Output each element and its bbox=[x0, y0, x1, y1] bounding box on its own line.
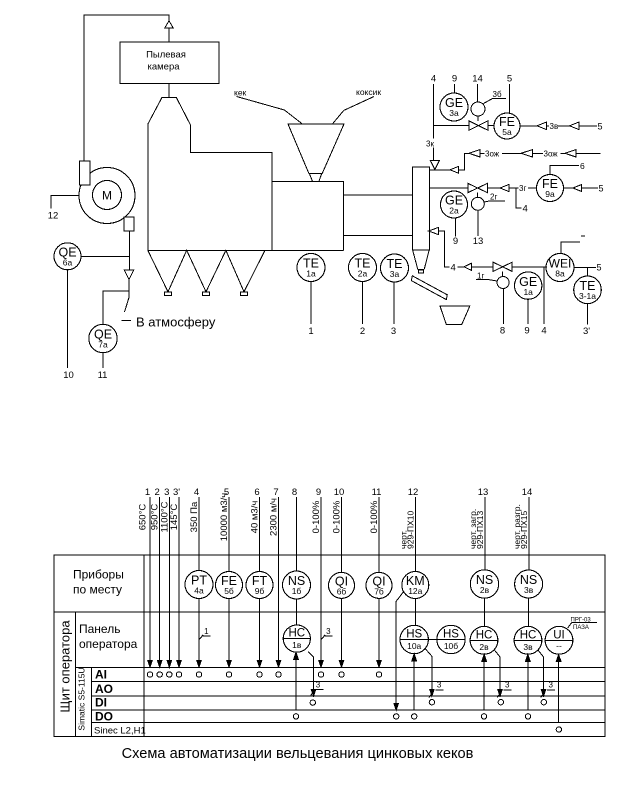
svg-text:1а: 1а bbox=[306, 269, 316, 279]
svg-text:12: 12 bbox=[408, 487, 419, 498]
svg-text:9: 9 bbox=[453, 236, 458, 247]
svg-text:2а: 2а bbox=[449, 206, 459, 216]
svg-text:3: 3 bbox=[437, 680, 442, 689]
svg-text:коксик: коксик bbox=[356, 87, 381, 97]
wire fan outlet stack bbox=[129, 231, 131, 270]
svg-text:8а: 8а bbox=[555, 269, 565, 279]
svg-text:HC: HC bbox=[520, 629, 537, 641]
svg-text:3: 3 bbox=[505, 680, 510, 689]
svg-text:3': 3' bbox=[173, 487, 180, 498]
instrument HS 10a bbox=[400, 625, 428, 653]
svg-text:HS: HS bbox=[443, 629, 459, 641]
wire TE1a to 1 bbox=[310, 282, 312, 325]
svg-text:10: 10 bbox=[63, 370, 74, 381]
wire QE7a tap bbox=[103, 291, 129, 324]
svg-text:350 Па: 350 Па bbox=[189, 501, 200, 532]
svg-text:3: 3 bbox=[391, 326, 396, 337]
svg-text:--: -- bbox=[556, 640, 562, 650]
svg-text:1г: 1г bbox=[477, 271, 484, 280]
wire column 8 bbox=[296, 497, 298, 571]
fan outlet duct bbox=[124, 217, 134, 231]
valve 3k inlet bbox=[430, 161, 439, 170]
wire actuator 1g to 8 bbox=[502, 289, 504, 325]
wire TE2a to 2 bbox=[362, 282, 364, 325]
wire WEI top bbox=[561, 242, 580, 253]
svg-text:4а: 4а bbox=[194, 586, 204, 596]
svg-text:2в: 2в bbox=[479, 642, 489, 652]
svg-text:7б: 7б bbox=[374, 587, 384, 597]
svg-text:AO: AO bbox=[95, 682, 113, 696]
instrument GE 2a bbox=[441, 191, 468, 218]
instrument FE 9a bbox=[537, 175, 564, 202]
svg-text:Приборы: Приборы bbox=[73, 568, 124, 582]
svg-text:ПАЗА: ПАЗА bbox=[573, 625, 589, 631]
svg-text:ПРГ-03: ПРГ-03 bbox=[571, 618, 592, 624]
tick 3 wire count col9 bbox=[321, 635, 325, 640]
pipe arrow to FE9a bbox=[487, 187, 500, 189]
svg-text:Sinec L2,H1: Sinec L2,H1 bbox=[94, 726, 146, 737]
svg-text:по месту: по месту bbox=[73, 583, 122, 597]
svg-text:2: 2 bbox=[360, 326, 365, 337]
svg-text:оператора: оператора bbox=[79, 637, 138, 651]
wire box to chamber roof bbox=[168, 84, 170, 98]
svg-text:Simatic S5-115U: Simatic S5-115U bbox=[77, 667, 87, 730]
svg-text:3ож: 3ож bbox=[544, 150, 559, 159]
flow arrow up on vent line bbox=[165, 21, 174, 28]
hopper outlet 1 bbox=[165, 292, 172, 296]
svg-text:0-100%: 0-100% bbox=[332, 500, 343, 533]
wire HS10a to DI bbox=[425, 649, 432, 697]
instrument FT 9b bbox=[246, 572, 273, 599]
instrument NS 2v bbox=[470, 570, 498, 598]
svg-text:11: 11 bbox=[372, 487, 382, 498]
pipe air to FE5a bbox=[434, 125, 469, 127]
discharge outlet bbox=[418, 270, 423, 273]
svg-text:1а: 1а bbox=[523, 287, 533, 297]
wire QE6a to stack bbox=[81, 255, 130, 257]
wire column 7 bbox=[278, 497, 280, 667]
svg-text:3в: 3в bbox=[550, 122, 559, 131]
svg-text:14: 14 bbox=[472, 74, 483, 85]
node UI drawing note bbox=[568, 623, 597, 629]
node 3b label bbox=[484, 99, 507, 104]
svg-text:14: 14 bbox=[522, 487, 533, 498]
svg-text:Пылевая: Пылевая bbox=[146, 50, 186, 61]
svg-text:1: 1 bbox=[204, 627, 209, 636]
svg-text:HS: HS bbox=[406, 629, 422, 641]
svg-text:5: 5 bbox=[597, 263, 602, 273]
fan inlet duct bbox=[80, 161, 91, 185]
wire branch to 4b bbox=[543, 267, 545, 324]
svg-text:Щит оператора: Щит оператора bbox=[58, 620, 73, 713]
table frame bbox=[54, 555, 605, 737]
valve butterfly air bbox=[469, 121, 479, 131]
svg-text:8: 8 bbox=[292, 487, 297, 498]
wire HS10a from DO bbox=[413, 654, 415, 710]
wire GE2a to 9 bbox=[455, 218, 457, 237]
wire column 14 bbox=[528, 497, 530, 570]
wire FE9a to 6 bbox=[550, 165, 579, 174]
wire column 4 bbox=[198, 497, 200, 571]
node 3k label bbox=[423, 139, 434, 147]
svg-text:40 м3/ч: 40 м3/ч bbox=[250, 501, 261, 534]
svg-text:11: 11 bbox=[98, 370, 108, 381]
svg-text:3: 3 bbox=[326, 627, 331, 636]
dust chamber label box bbox=[120, 42, 219, 84]
wire HC3v from DO bbox=[527, 654, 529, 710]
wire TE3-1a to 3' bbox=[587, 304, 589, 325]
svg-text:3г: 3г bbox=[519, 184, 526, 193]
svg-text:650°C: 650°C bbox=[138, 504, 149, 531]
svg-text:1б: 1б bbox=[292, 586, 302, 596]
discharge head vessel bbox=[413, 167, 430, 250]
node 2g label bbox=[484, 201, 505, 202]
wire WEI right bbox=[574, 267, 596, 269]
svg-text:1в: 1в bbox=[292, 640, 302, 650]
instrument HS 10b bbox=[437, 625, 465, 653]
svg-text:3а: 3а bbox=[449, 108, 459, 118]
instrument WEI 8a bbox=[546, 254, 574, 282]
wire column 3' bbox=[178, 497, 180, 667]
wire HC2v to DI bbox=[494, 650, 500, 696]
wire column 5 bbox=[228, 497, 230, 572]
svg-text:3-1а: 3-1а bbox=[579, 291, 596, 301]
pipe vessel to FE9a bbox=[429, 187, 468, 189]
svg-text:2: 2 bbox=[155, 487, 160, 498]
svg-text:3: 3 bbox=[164, 487, 169, 498]
instrument UI bbox=[545, 626, 573, 654]
instrument GE 3a bbox=[440, 93, 468, 121]
svg-text:0-100%: 0-100% bbox=[369, 500, 380, 533]
svg-text:6: 6 bbox=[254, 487, 259, 498]
kiln drum top bbox=[343, 194, 412, 196]
svg-text:AI: AI bbox=[95, 668, 107, 682]
svg-text:9а: 9а bbox=[545, 189, 555, 199]
svg-text:HC: HC bbox=[476, 629, 493, 641]
chute bbox=[411, 276, 447, 300]
instrument KM 12a bbox=[402, 572, 429, 599]
fan casing bbox=[79, 168, 135, 224]
kiln loading head bbox=[272, 182, 343, 251]
svg-text:0-100%: 0-100% bbox=[311, 500, 322, 533]
wire actuator to 14 bbox=[477, 84, 479, 102]
svg-text:3а: 3а bbox=[390, 269, 400, 279]
svg-text:10: 10 bbox=[334, 487, 345, 498]
svg-text:2300 м/ч: 2300 м/ч bbox=[269, 498, 280, 536]
svg-text:7а: 7а bbox=[98, 340, 108, 350]
svg-text:6б: 6б bbox=[337, 587, 347, 597]
svg-text:DI: DI bbox=[95, 695, 107, 709]
svg-text:9: 9 bbox=[452, 74, 457, 85]
wire column 13 bbox=[484, 497, 486, 570]
wire KM12a to HS10a bbox=[414, 599, 416, 626]
wire FE5a to 5 bbox=[509, 84, 511, 114]
instrument PT 4a bbox=[185, 571, 213, 599]
discharge cone bbox=[413, 250, 418, 269]
wire 4 riser with 3k drop bbox=[433, 84, 435, 139]
instrument QI 7b bbox=[366, 572, 392, 598]
svg-text:145°C: 145°C bbox=[169, 504, 180, 531]
motor M bbox=[93, 181, 122, 210]
svg-text:5: 5 bbox=[507, 74, 512, 85]
wire column 6 bbox=[259, 497, 261, 572]
instrument QE 7a bbox=[89, 324, 117, 352]
svg-text:929-ПХ13: 929-ПХ13 bbox=[475, 510, 485, 549]
svg-text:M: M bbox=[102, 189, 112, 203]
svg-text:2г: 2г bbox=[490, 193, 497, 202]
svg-text:5б: 5б bbox=[224, 586, 234, 596]
wire column 2 bbox=[159, 497, 161, 667]
svg-text:3': 3' bbox=[583, 326, 590, 337]
svg-text:3ож: 3ож bbox=[485, 150, 500, 159]
svg-text:9б: 9б bbox=[255, 586, 265, 596]
valve butterfly 2g bbox=[468, 183, 478, 192]
svg-text:4: 4 bbox=[431, 74, 436, 85]
wire actuator 2g to 13 bbox=[477, 210, 479, 236]
pipe FE9a out bbox=[564, 187, 574, 189]
tick 1 wire count bbox=[199, 635, 203, 640]
wire HC1v to DI bbox=[308, 652, 313, 696]
svg-text:7: 7 bbox=[273, 487, 278, 498]
actuator 1g bbox=[502, 271, 504, 276]
wire QE7a to 11 bbox=[102, 353, 104, 368]
actuator 2g bbox=[477, 193, 479, 198]
feed funnel bbox=[288, 124, 344, 173]
wire column 1 bbox=[149, 497, 151, 667]
actuator air valve bbox=[477, 116, 479, 121]
svg-text:2а: 2а bbox=[358, 269, 368, 279]
wire branch to 4 bbox=[516, 188, 522, 208]
wire 12 to motor bbox=[51, 196, 79, 209]
svg-text:3в: 3в bbox=[523, 642, 533, 652]
svg-text:3б: 3б bbox=[493, 90, 502, 99]
svg-text:13: 13 bbox=[478, 487, 489, 498]
svg-text:камера: камера bbox=[147, 62, 180, 73]
svg-text:10б: 10б bbox=[444, 641, 458, 651]
hopper outlet 3 bbox=[241, 292, 248, 296]
instrument HC 1v bbox=[283, 625, 310, 652]
wire stack to atmosphere bbox=[128, 280, 130, 298]
instrument HC 3v bbox=[514, 626, 542, 654]
pipe to WEI bbox=[512, 266, 547, 268]
svg-text:12а: 12а bbox=[408, 586, 422, 596]
instrument TE 3a bbox=[381, 254, 409, 282]
svg-text:12: 12 bbox=[48, 211, 59, 222]
dust chamber bottom line bbox=[148, 249, 344, 251]
instrument FE 5b bbox=[216, 572, 243, 599]
instrument QI 6b bbox=[329, 572, 355, 598]
valve butterfly 1g bbox=[493, 262, 502, 271]
svg-text:4: 4 bbox=[523, 204, 528, 215]
svg-text:10а: 10а bbox=[407, 641, 421, 651]
wire column 10 bbox=[341, 497, 343, 572]
kiln drum bottom bbox=[343, 235, 412, 237]
svg-text:13: 13 bbox=[473, 236, 484, 247]
instrument GE 1a bbox=[515, 272, 542, 299]
svg-text:5а: 5а bbox=[502, 127, 512, 137]
instrument FE 5a bbox=[488, 125, 494, 127]
wire column 11 bbox=[378, 497, 380, 572]
svg-text:929-ПХ10: 929-ПХ10 bbox=[406, 510, 416, 549]
svg-text:HC: HC bbox=[288, 628, 305, 640]
svg-text:Панель: Панель bbox=[79, 622, 120, 636]
svg-text:Схема автоматизации вельцевани: Схема автоматизации вельцевания цинковых… bbox=[122, 746, 474, 762]
instrument HC 2v bbox=[470, 626, 498, 654]
svg-text:8: 8 bbox=[500, 326, 505, 337]
hopper cones bbox=[148, 250, 265, 291]
svg-text:6а: 6а bbox=[63, 258, 73, 268]
svg-text:2в: 2в bbox=[480, 585, 490, 595]
svg-text:929-ПХ15: 929-ПХ15 bbox=[519, 510, 529, 549]
svg-text:5: 5 bbox=[599, 184, 604, 194]
svg-text:3: 3 bbox=[548, 680, 553, 689]
svg-text:9: 9 bbox=[316, 487, 321, 498]
svg-text:3к: 3к bbox=[426, 140, 434, 149]
instrument QE 6a bbox=[54, 243, 81, 270]
wire GE1a to 9 bbox=[527, 299, 529, 324]
bucket bbox=[440, 306, 470, 325]
wire KM12a to DO bbox=[396, 592, 403, 710]
wire column 3 bbox=[168, 497, 170, 667]
wire vent recirculation loop bbox=[84, 15, 169, 161]
svg-text:1: 1 bbox=[145, 487, 150, 498]
svg-text:кек: кек bbox=[234, 88, 247, 98]
wire GE3a to 9 bbox=[454, 84, 456, 93]
pipe FE5a out with arrows 3v bbox=[520, 125, 537, 127]
instrument NS 1b bbox=[283, 571, 311, 599]
hopper outlet 2 bbox=[203, 292, 210, 296]
wire UI from Sinec bbox=[558, 654, 560, 722]
wire QE6a to 10 bbox=[67, 270, 69, 368]
instrument TE 2a bbox=[349, 254, 377, 282]
svg-text:4: 4 bbox=[541, 326, 546, 337]
instrument NS 3v bbox=[515, 570, 543, 598]
svg-text:10000 м3/ч: 10000 м3/ч bbox=[219, 493, 230, 542]
svg-text:4: 4 bbox=[194, 487, 199, 498]
wire vent to dust chamber box bbox=[168, 28, 170, 42]
instrument TE 1a bbox=[297, 254, 325, 282]
svg-text:3в: 3в bbox=[524, 585, 534, 595]
pipe discharge line bbox=[429, 227, 439, 234]
svg-text:4: 4 bbox=[451, 262, 456, 273]
svg-text:DO: DO bbox=[95, 710, 113, 724]
svg-text:1: 1 bbox=[308, 326, 313, 337]
instrument TE 3-1a bbox=[587, 268, 589, 277]
wire column 9 bbox=[320, 497, 322, 667]
svg-text:3: 3 bbox=[316, 680, 321, 689]
wire HC1v from DO bbox=[295, 652, 297, 710]
svg-text:5: 5 bbox=[598, 122, 603, 132]
wire TE3a to 3 bbox=[393, 282, 395, 324]
pipe 3ozh return bbox=[429, 169, 450, 171]
dust chamber body bbox=[148, 97, 272, 250]
wire HC2v from DO bbox=[483, 654, 485, 710]
svg-text:9: 9 bbox=[524, 326, 529, 337]
wire HC3v to DI bbox=[538, 650, 544, 696]
svg-text:6: 6 bbox=[580, 161, 585, 171]
svg-text:В атмосферу: В атмосферу bbox=[136, 315, 216, 330]
vent valve bbox=[124, 270, 134, 280]
wire column 12 bbox=[415, 497, 417, 572]
